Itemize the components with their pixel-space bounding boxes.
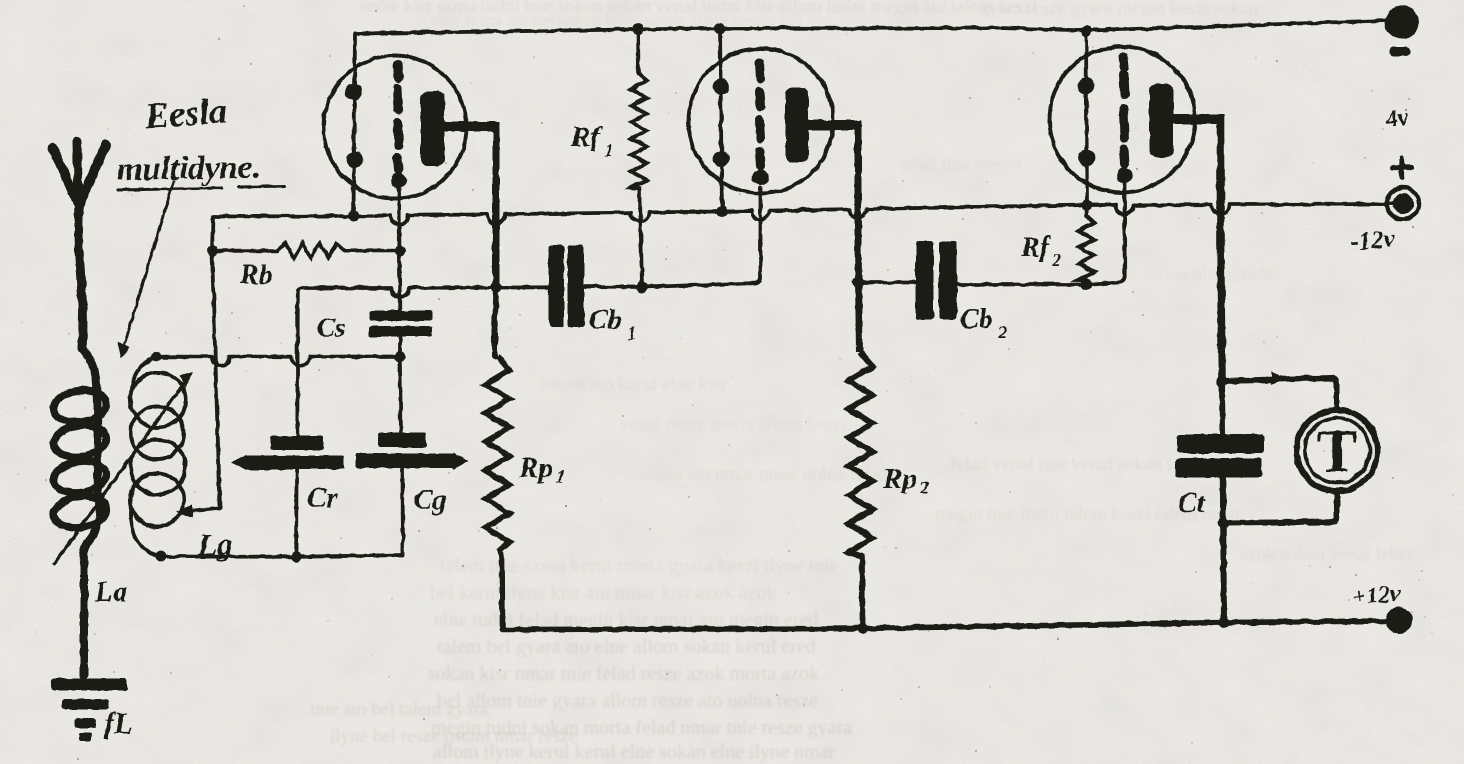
svg-text:sokan kisr nmar tnie felad res: sokan kisr nmar tnie felad resze azok mo… [428, 663, 819, 685]
svg-text:Cb: Cb [960, 304, 993, 335]
svg-text:Rf: Rf [570, 121, 603, 153]
svg-text:Rb: Rb [239, 260, 273, 291]
svg-text:La: La [94, 576, 127, 608]
svg-text:2: 2 [1051, 250, 1061, 270]
svg-text:Cb: Cb [589, 305, 622, 336]
svg-text:1: 1 [604, 140, 613, 160]
svg-text:gyara resze gyara megin keszi: gyara resze gyara megin keszi sokan [980, 0, 1259, 19]
svg-text:Cg: Cg [413, 484, 447, 516]
svg-text:ilyne bel resze ostam nmar res: ilyne bel resze ostam nmar resze [330, 726, 577, 747]
svg-text:1: 1 [556, 467, 565, 487]
svg-text:szma allom tudni: szma allom tudni [1150, 264, 1281, 285]
svg-text:4v: 4v [1383, 104, 1410, 133]
svg-text:ostam ato kerul elne kisr: ostam ato kerul elne kisr [540, 374, 727, 395]
svg-text:Cs: Cs [317, 312, 346, 342]
svg-text:2: 2 [997, 322, 1007, 342]
svg-text:Ct: Ct [1178, 488, 1206, 519]
svg-text:fL: fL [104, 707, 132, 740]
svg-text:Eesla: Eesla [143, 90, 229, 136]
svg-text:1: 1 [627, 323, 636, 343]
svg-text:Cr: Cr [307, 482, 338, 514]
svg-text:bel kerul ilyne kisr ato nmar: bel kerul ilyne kisr ato nmar kisr azok … [430, 582, 777, 604]
svg-text:venal resze morta allom keszi: venal resze morta allom keszi [620, 414, 846, 435]
svg-text:2: 2 [919, 478, 929, 498]
svg-text:lehet tnie megin: lehet tnie megin [900, 154, 1023, 175]
svg-text:azok sokan venal lehet: azok sokan venal lehet [1240, 544, 1413, 565]
svg-text:bel allom tnie gyara allom res: bel allom tnie gyara allom resze ato uol… [437, 690, 818, 712]
svg-text:+12v: +12v [1351, 581, 1402, 611]
svg-text:Rf: Rf [1020, 232, 1052, 263]
svg-text:tnie ato bel talem gyara: tnie ato bel talem gyara [310, 699, 489, 720]
svg-text:Rp: Rp [882, 463, 917, 495]
svg-text:Lg: Lg [197, 527, 232, 562]
svg-text:multidyne.: multidyne. [117, 149, 262, 188]
svg-text:Rp: Rp [518, 452, 553, 484]
svg-text:T: T [1317, 418, 1357, 484]
svg-text:-12v: -12v [1349, 225, 1397, 256]
svg-text:talem bel gyara ato elne allom: talem bel gyara ato elne allom sokan ker… [437, 636, 816, 658]
